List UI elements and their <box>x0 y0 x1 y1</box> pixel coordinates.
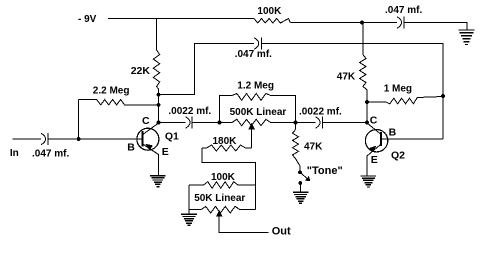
wire cap2 to Q2 collector node: part of chain <box>296 122 316 124</box>
Q1 emitter lead + wire to ground <box>144 145 159 176</box>
ground below 50K left <box>181 214 197 225</box>
wire 100K left / ground leg <box>188 185 190 214</box>
wire 22K top lead <box>156 19 158 51</box>
transistor Q1 PNP circle <box>137 128 159 150</box>
wire rail right <box>290 22 397 24</box>
capacitor C .0022 mf. second <box>316 117 321 129</box>
svg-text:- 9V: - 9V <box>78 14 97 25</box>
svg-text:.047 mf.: .047 mf. <box>385 5 422 16</box>
resistor 2.2 Meg (bias feedback) <box>79 100 131 105</box>
Q2 emitter arrow <box>369 146 376 153</box>
Q2 base wire to right vertical <box>382 138 443 140</box>
potentiometer 500K Linear track <box>220 119 296 125</box>
wire 22K to Q1 collector node <box>158 89 160 123</box>
Q1 collector lead <box>144 123 159 134</box>
node 1 Meg left <box>365 100 369 104</box>
wire wiper to Out <box>219 216 268 232</box>
wire 47K tone top lead <box>295 123 297 130</box>
svg-text:22K: 22K <box>131 65 151 77</box>
ground Q2 emitter <box>361 176 377 187</box>
svg-text:Out: Out <box>272 226 291 238</box>
svg-text:100K: 100K <box>257 6 282 17</box>
500K wiper arrow <box>248 123 255 130</box>
node tone switch pivot <box>298 170 302 174</box>
resistor 47K (tone) <box>293 130 301 171</box>
resistor 1 Meg (Q2 bias) <box>367 97 443 104</box>
svg-text:Q2: Q2 <box>391 150 405 162</box>
capacitor C .047 mf. top right <box>397 17 402 29</box>
svg-text:47K: 47K <box>304 142 323 153</box>
wire input cap to Q1 base <box>48 138 141 140</box>
wire terminal to ground <box>299 183 301 192</box>
svg-text:2.2 Meg: 2.2 Meg <box>93 86 130 97</box>
node A 500K left <box>218 121 222 125</box>
svg-text:50K Linear: 50K Linear <box>194 193 245 204</box>
svg-text:In: In <box>10 148 19 159</box>
svg-text:"Tone": "Tone" <box>307 165 343 177</box>
wire 47K to Q2 collector node <box>366 90 368 123</box>
ground tone <box>293 192 309 203</box>
wire 180K left down-over-down <box>202 148 256 210</box>
svg-text:Q1: Q1 <box>165 131 179 143</box>
Q1 base bar <box>141 131 143 147</box>
capacitor C .047 mf. input <box>41 133 46 145</box>
switch arm "Tone" <box>300 172 309 180</box>
svg-text:100K: 100K <box>211 172 236 183</box>
resistor 1.2 Meg (bridge) <box>220 94 296 123</box>
svg-text:E: E <box>162 146 169 158</box>
svg-text:C: C <box>370 115 378 127</box>
wire mid cap to right vertical / Q2 base <box>261 44 443 140</box>
resistor 22K (Q1 load) <box>153 50 159 89</box>
svg-text:47K: 47K <box>337 72 356 83</box>
node 2.2Meg/collector <box>157 103 161 107</box>
wire wiper down <box>251 129 253 148</box>
wire Q1 node up-over to mid cap <box>159 44 255 95</box>
potentiometer 50K Linear track <box>189 206 255 213</box>
resistor 47K (Q2 load) <box>360 55 368 90</box>
resistor 180K (wiper series) <box>202 145 252 151</box>
wire input In <box>13 138 41 140</box>
transistor Q2 PNP circle <box>365 130 387 152</box>
svg-text:E: E <box>371 154 378 166</box>
resistor 100K (output divider top) <box>189 182 255 189</box>
wire to Q2 collector <box>323 122 367 124</box>
capacitor C .0022 mf. first <box>186 117 191 129</box>
wire Q1 collector to first .0022 cap <box>159 122 186 124</box>
wire cap to node A <box>192 122 220 124</box>
ground top right <box>458 30 474 45</box>
wire junction up to 2.2 Meg <box>78 100 80 140</box>
resistor 100K (supply) <box>254 19 290 24</box>
Q2 emitter lead + wire <box>367 145 380 176</box>
node Q1 collector top <box>157 93 161 97</box>
svg-text:B: B <box>127 141 135 153</box>
svg-text:C: C <box>142 115 150 127</box>
svg-text:180K: 180K <box>213 136 238 147</box>
svg-text:1 Meg: 1 Meg <box>384 83 412 94</box>
ground Q1 emitter <box>150 176 166 187</box>
svg-text:B: B <box>389 126 397 138</box>
wire 2.2 Meg to Q1 node <box>131 104 159 106</box>
svg-text:1.2 Meg: 1.2 Meg <box>237 81 274 92</box>
Q2 collector lead <box>367 123 380 134</box>
capacitor C .047 mf. middle <box>254 38 259 50</box>
node Q2 collector <box>365 121 369 125</box>
node tone ground terminal <box>298 181 302 185</box>
node B 500K right <box>294 121 298 125</box>
wire 47K top lead <box>362 23 364 55</box>
50K wiper arrow <box>216 210 223 217</box>
node rail/47K junction <box>360 21 364 25</box>
svg-text:.0022 mf.: .0022 mf. <box>299 106 342 117</box>
svg-text:.0022 mf.: .0022 mf. <box>168 106 211 117</box>
svg-text:.047 mf.: .047 mf. <box>32 148 69 159</box>
Q2 base bar <box>380 132 382 146</box>
node 1 Meg right <box>441 94 445 98</box>
node input junction <box>77 137 81 141</box>
wire to top-right ground <box>404 23 467 31</box>
Q1 emitter arrow <box>145 144 153 151</box>
svg-text:.047 mf.: .047 mf. <box>235 49 272 60</box>
power rail -9V <box>108 18 254 20</box>
node Q1 collector/cap <box>157 121 161 125</box>
svg-text:500K Linear: 500K Linear <box>230 107 287 118</box>
